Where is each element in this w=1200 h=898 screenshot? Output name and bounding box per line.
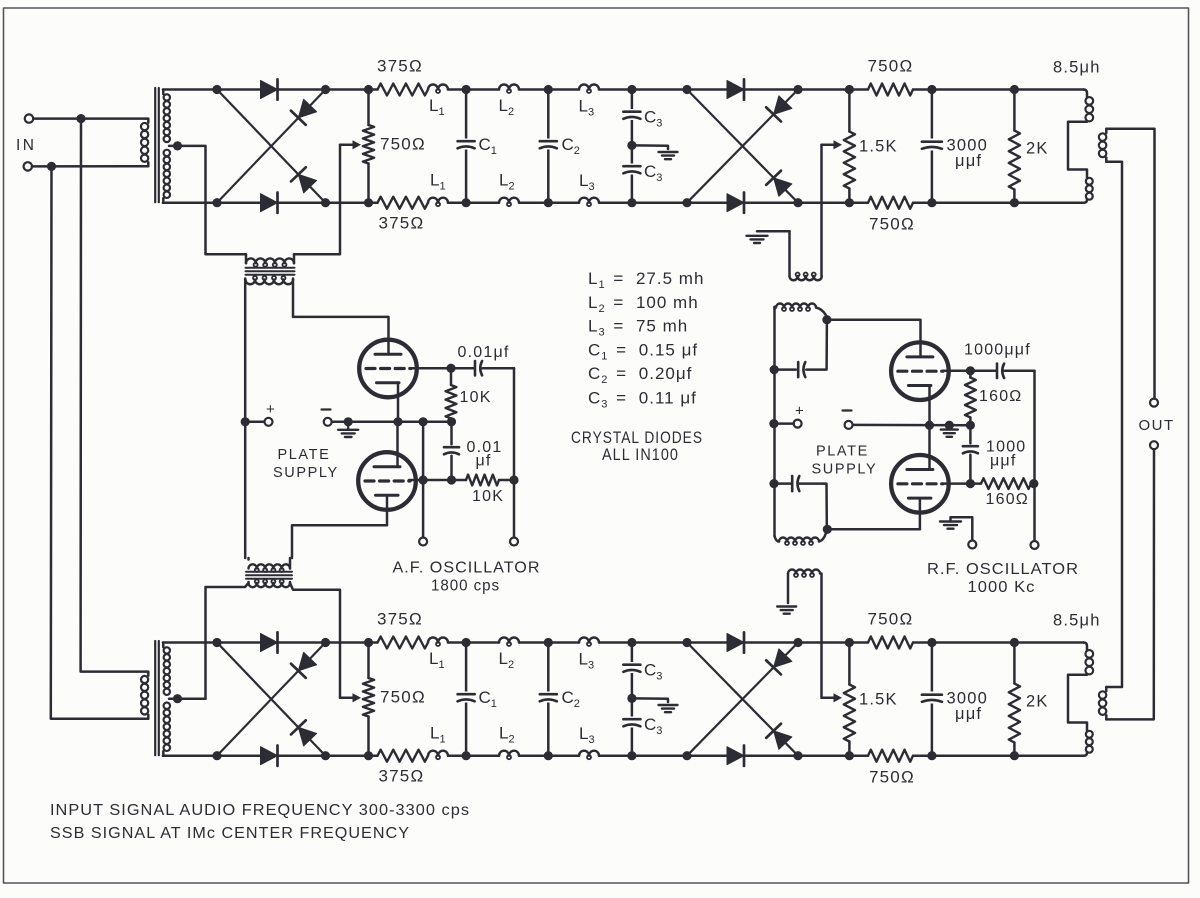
label L1 top A <box>429 96 445 118</box>
label L2 top B <box>499 649 515 671</box>
inductor L2 bottom B <box>499 751 519 760</box>
junction C3 bottom B <box>627 751 636 760</box>
svg-text:IN: IN <box>16 137 37 154</box>
label 375 top B <box>377 610 423 629</box>
wire pot2A top lead <box>848 90 851 132</box>
ground AF rail <box>338 422 358 437</box>
label 1.5K B <box>859 691 898 709</box>
wire top bus left B <box>163 641 378 644</box>
diode D2A <box>261 193 278 213</box>
label RF OSCILLATOR <box>927 561 1079 578</box>
wire pot1A top lead <box>367 90 370 126</box>
capacitor 1000uuf coupling <box>963 425 978 483</box>
wire C2 branch A <box>547 90 550 203</box>
wire feedback cap A to rail <box>774 368 796 371</box>
label 10K V1 <box>460 389 492 406</box>
capacitor C3 lower B <box>623 717 640 728</box>
junction rail RF plus <box>769 419 778 428</box>
junction right rail AF <box>509 475 518 484</box>
wire RF bottom rail <box>827 528 920 531</box>
resistor 10K grid V1 <box>446 368 457 422</box>
terminal IN upper <box>25 114 33 122</box>
wire V2 plate lead <box>396 422 399 465</box>
svg-text:2K: 2K <box>1026 140 1049 158</box>
wire A 750-out top <box>913 88 1084 91</box>
junction V1 grid node <box>446 364 455 373</box>
transformer T2A primary winding <box>246 254 294 266</box>
resistor 160ohm V4 <box>970 478 1031 489</box>
transformer T2B core <box>246 572 292 579</box>
junction 2K top B <box>1010 638 1019 647</box>
wire pot1B bottom lead <box>367 717 370 756</box>
svg-text:1.5K: 1.5K <box>859 691 898 709</box>
label 1800 cps <box>431 578 500 595</box>
transformer T4 tank winding B <box>775 534 826 546</box>
wire V1 cathode lead <box>397 383 400 422</box>
svg-text:8.5μh: 8.5μh <box>1053 59 1101 77</box>
terminal AF output left <box>419 538 427 546</box>
svg-text:L3 = 75 mh: L3 = 75 mh <box>588 317 688 339</box>
svg-text:A.F. OSCILLATOR: A.F. OSCILLATOR <box>393 560 541 577</box>
label C1 B <box>479 688 497 710</box>
svg-text:750Ω: 750Ω <box>869 768 915 787</box>
wire pot1B top lead <box>367 643 370 679</box>
label C3 upper B <box>644 661 662 683</box>
transformer T3B secondary winding <box>1099 687 1106 719</box>
label 0.01 V2 <box>467 439 503 456</box>
terminal plus AF <box>265 418 273 426</box>
capacitor C2 A <box>540 139 557 150</box>
diode D7A <box>766 96 792 122</box>
junction 2K bottom B <box>1010 751 1019 760</box>
junction 3000uuf bottom B <box>927 751 936 760</box>
wire A L2-L3 bottom <box>519 201 579 204</box>
junction C1 bottom B <box>462 751 471 760</box>
capacitor C2 B <box>540 692 557 703</box>
wire rail to V2 grid <box>422 422 425 480</box>
junction C3 top A <box>627 85 636 94</box>
wire B 750-out bottom <box>913 754 1084 757</box>
svg-text:0.01μf: 0.01μf <box>458 344 510 361</box>
junction rail ground A <box>344 417 353 426</box>
label L3 bottom A <box>579 171 595 193</box>
wire center-tap A to T2A <box>178 146 247 254</box>
label 3000uuf A <box>947 137 989 171</box>
capacitor C3 lower A <box>623 164 640 175</box>
junction pot1B top <box>364 638 373 647</box>
wire diagonal ring1B <box>217 643 326 756</box>
svg-text:L2 = 100 mh: L2 = 100 mh <box>588 293 699 315</box>
svg-text:2K: 2K <box>1026 693 1049 711</box>
resistor 750ohm output top B <box>868 637 913 649</box>
label uf V2 <box>476 453 492 470</box>
tube V3 <box>891 342 949 400</box>
wire B L3-ring top <box>599 641 687 644</box>
junction C2 bottom A <box>544 198 553 207</box>
label 375 bottom A <box>379 214 425 233</box>
wire T2A secondary right to V1 plate <box>293 280 389 355</box>
table component values <box>588 269 704 411</box>
label C3 upper A <box>644 108 662 130</box>
terminal plus RF <box>794 420 802 428</box>
label 750 output bottom B <box>869 768 915 787</box>
transformer T2A secondary winding <box>245 276 293 284</box>
svg-text:L3: L3 <box>579 650 595 672</box>
label 8.5uh B <box>1053 612 1101 630</box>
svg-text:1.5K: 1.5K <box>859 138 898 156</box>
label 2K A <box>1026 140 1049 158</box>
svg-text:C1: C1 <box>479 688 497 710</box>
svg-text:μμf: μμf <box>955 705 982 723</box>
label OUT <box>1139 417 1175 434</box>
svg-text:375Ω: 375Ω <box>377 610 423 629</box>
transformer T1A secondary winding <box>163 90 170 203</box>
transformer T3B output primary 8.5uh <box>1068 643 1093 756</box>
wire T2B secondary left to center-tap B <box>181 583 249 699</box>
label 750 pot B <box>380 688 426 707</box>
svg-text:C2: C2 <box>562 688 580 710</box>
potentiometer 1.5K B <box>844 685 855 742</box>
ground L4 top <box>747 236 768 243</box>
wire A L1-L2 top <box>448 88 499 91</box>
wire T3A secondary to T3B secondary <box>1106 162 1122 687</box>
capacitor 3000uuf B <box>922 692 942 704</box>
svg-text:750Ω: 750Ω <box>869 215 915 234</box>
svg-text:SSB SIGNAL AT IMc CENTER FREQU: SSB SIGNAL AT IMc CENTER FREQUENCY <box>50 825 410 842</box>
label 1.5K A <box>859 138 898 156</box>
svg-text:1800 cps: 1800 cps <box>431 578 500 595</box>
wire B 750-out top <box>913 641 1084 644</box>
svg-text:10K: 10K <box>472 488 504 505</box>
resistor 160ohm V3 <box>965 371 976 425</box>
wire V3 grid lead <box>943 370 970 373</box>
junction pot2B top <box>845 638 854 647</box>
junction ring1A node <box>321 85 330 94</box>
resistor 2K B <box>1009 684 1020 743</box>
capacitor 1000uuf grid V3 <box>970 364 1034 378</box>
svg-text:μμf: μμf <box>955 152 982 170</box>
svg-text:L1: L1 <box>430 171 446 193</box>
svg-text:10K: 10K <box>460 389 492 406</box>
junction pot1A bottom <box>364 198 373 207</box>
junction rail RF 2 <box>769 479 778 488</box>
transformer T1B secondary winding <box>163 643 170 756</box>
junction C3 mid B <box>627 694 636 703</box>
junction C1 top A <box>462 85 471 94</box>
inductor L2 bottom A <box>499 198 519 206</box>
svg-text:160Ω: 160Ω <box>979 388 1022 405</box>
label 0.01uf V1 <box>458 344 510 361</box>
label 750 pot A <box>380 135 426 154</box>
wire V2 cathode to T2B <box>292 496 387 559</box>
svg-text:L1 = 27.5 mh: L1 = 27.5 mh <box>588 269 704 291</box>
junction T4B node <box>823 525 832 534</box>
tube V4 <box>891 455 949 513</box>
center tap stub T1A <box>169 145 178 148</box>
svg-text:R.F. OSCILLATOR: R.F. OSCILLATOR <box>927 561 1079 578</box>
label 8.5uh A <box>1053 59 1101 77</box>
wire feedback cap B corner <box>823 484 827 525</box>
center tap stub T1B <box>169 697 178 700</box>
inductor L2 top A <box>499 85 519 94</box>
resistor 750ohm output bottom B <box>868 750 913 762</box>
wire B right-ring to 750 top <box>798 641 868 644</box>
wire feedback cap A branch <box>806 320 827 370</box>
potentiometer 750ohm B <box>363 678 374 717</box>
svg-text:μμf: μμf <box>990 453 1016 470</box>
diode D1A <box>261 79 278 99</box>
junction C3 bottom A <box>627 198 636 207</box>
svg-text:L3: L3 <box>579 97 595 119</box>
terminal RF output right <box>1031 541 1039 549</box>
transformer T3A output primary 8.5uh <box>1068 90 1093 203</box>
wire IN lower to T1B <box>51 166 146 718</box>
wire V3 plate <box>827 320 921 357</box>
wire A L1-L2 bottom <box>448 201 499 204</box>
label 750 output top A <box>868 57 914 76</box>
junction ring2A node <box>682 198 691 207</box>
tube V1 <box>359 340 417 398</box>
label 1000 coupling <box>986 439 1026 456</box>
label IN <box>16 137 37 154</box>
junction pot1B bottom <box>364 751 373 760</box>
label 160ohm V3 <box>979 388 1022 405</box>
wire A right-ring to 750 bottom <box>798 201 868 204</box>
diode D5A <box>727 79 744 99</box>
label PLATE SUPPLY RF <box>812 444 878 478</box>
svg-text:375Ω: 375Ω <box>377 57 423 76</box>
junction 3000uuf top A <box>927 85 936 94</box>
svg-text:L2: L2 <box>499 96 515 118</box>
label C2 B <box>562 688 580 710</box>
transformer T4 tank winding A <box>775 304 827 318</box>
label 1000uuf V3 <box>964 342 1031 359</box>
svg-text:750Ω: 750Ω <box>380 135 426 154</box>
label L2 bottom B <box>499 724 515 746</box>
svg-text:C2: C2 <box>562 135 580 157</box>
wire IN upper to T1A <box>33 117 146 120</box>
diode D5B <box>727 632 744 652</box>
svg-text:1000μμf: 1000μμf <box>964 342 1031 359</box>
wire A L3-ring bottom <box>599 201 687 204</box>
svg-text:1000 Kc: 1000 Kc <box>968 579 1036 596</box>
transformer T2B primary winding <box>245 554 290 573</box>
junction rail A left <box>241 417 250 426</box>
inductor L1 bottom B <box>428 751 448 760</box>
wire top bus left A <box>163 88 378 91</box>
label 750 output bottom A <box>869 215 915 234</box>
label C1 A <box>479 135 497 157</box>
terminal minus AF <box>324 418 332 426</box>
diode D8B <box>766 724 792 750</box>
wire plus RF <box>778 422 794 425</box>
wire C3 branch B <box>631 643 634 756</box>
junction ring2A node <box>793 198 802 207</box>
svg-text:SUPPLY: SUPPLY <box>812 462 878 478</box>
label C2 A <box>562 135 580 157</box>
junction rail RF ground <box>945 421 954 430</box>
svg-text:L2: L2 <box>499 171 515 193</box>
label 375 bottom B <box>379 767 425 786</box>
wire A L3-ring top <box>599 88 687 91</box>
wire V2 grid to terminal <box>422 480 425 538</box>
diode D4B <box>291 720 317 746</box>
wire pot1A bottom lead <box>367 164 370 203</box>
junction IN upper branch <box>76 114 85 123</box>
inductor L2 top B <box>499 638 519 647</box>
junction V4 grid node <box>966 479 975 488</box>
wire C3 ground stub B <box>632 698 668 702</box>
svg-text:L1: L1 <box>430 724 446 746</box>
label L1 bottom A <box>430 171 446 193</box>
svg-text:PLATE: PLATE <box>816 444 869 460</box>
junction pot2A bottom <box>845 198 854 207</box>
wire C3 branch A <box>631 90 634 203</box>
diode D2B <box>261 746 278 766</box>
svg-text:L2: L2 <box>499 649 515 671</box>
junction V3 grid node <box>966 366 975 375</box>
junction ring2B node <box>682 638 691 647</box>
wire 3000uuf branch B <box>931 643 934 756</box>
resistor 375ohm top A <box>378 84 429 96</box>
label C3 lower B <box>644 715 662 737</box>
resistor 10K grid V2 <box>466 475 499 486</box>
junction T4A plate node <box>822 315 831 324</box>
junction ring1B node <box>212 638 221 647</box>
wire B L3-ring bottom <box>599 754 687 757</box>
svg-text:+: + <box>795 403 804 420</box>
junction V2 grid left <box>419 475 428 484</box>
capacitor feedback B <box>774 476 823 491</box>
resistor 750ohm output top A <box>868 84 913 96</box>
wire T2A secondary left to plate-supply rail <box>244 280 247 554</box>
junction C3 mid A <box>627 141 636 150</box>
label 160ohm V4 <box>986 491 1029 508</box>
svg-text:SUPPLY: SUPPLY <box>273 465 339 481</box>
svg-text:L1: L1 <box>429 649 445 671</box>
wire V4 cathode lead <box>919 499 922 530</box>
junction right rail RF <box>1029 479 1038 488</box>
potentiometer 750ohm A <box>363 125 374 164</box>
svg-text:375Ω: 375Ω <box>379 214 425 233</box>
wire right rail AF <box>485 368 515 537</box>
junction IN lower branch <box>47 162 56 171</box>
junction ring1A node <box>321 198 330 207</box>
svg-text:C3: C3 <box>644 661 662 683</box>
transformer T2A core <box>246 268 295 275</box>
svg-text:μf: μf <box>476 453 492 470</box>
svg-text:375Ω: 375Ω <box>379 767 425 786</box>
junction ring1B node <box>321 638 330 647</box>
junction 3000uuf bottom A <box>927 198 936 207</box>
terminal AF output right <box>510 538 518 546</box>
label L1 top B <box>429 649 445 671</box>
wire V2 grid lead <box>409 479 466 482</box>
junction ring2A node <box>793 85 802 94</box>
terminal IN lower <box>24 162 32 170</box>
junction rail 160 RF <box>966 421 975 430</box>
tube V2 <box>358 452 416 510</box>
label C3 lower A <box>644 162 662 184</box>
junction ring1A node <box>212 85 221 94</box>
diode D6A <box>727 193 744 213</box>
transformer T1A input primary winding <box>141 119 148 167</box>
junction 2K bottom A <box>1010 198 1019 207</box>
wire C2 branch B <box>547 643 550 756</box>
resistor 2K A <box>1009 131 1020 190</box>
wire V1 grid lead <box>411 367 451 370</box>
transformer T1A core <box>155 88 159 202</box>
wire 10K V2 to rail <box>499 479 514 482</box>
capacitor C1 A <box>458 139 475 150</box>
junction ring1A node <box>212 198 221 207</box>
wire 3000uuf branch A <box>931 90 934 203</box>
svg-text:ALL IN100: ALL IN100 <box>602 446 679 464</box>
junction ring2B node <box>682 751 691 760</box>
resistor 375ohm bottom A <box>378 197 429 209</box>
terminal OUT lower <box>1150 441 1158 449</box>
wire A L2-L3 top <box>519 88 579 91</box>
label 2K B <box>1026 693 1049 711</box>
coupling coil L4 top <box>757 231 822 280</box>
junction ring2B node <box>793 638 802 647</box>
label L2 bottom A <box>499 171 515 193</box>
wire C1 branch A <box>465 90 468 203</box>
svg-text:160Ω: 160Ω <box>986 491 1029 508</box>
wiper arrow pot1B <box>340 693 361 702</box>
wire T2B secondary right to wiper B <box>290 583 340 698</box>
junction rail V1 cathode <box>393 417 402 426</box>
svg-text:PLATE: PLATE <box>278 447 331 463</box>
junction ring1B node <box>321 751 330 760</box>
diode D3B <box>291 652 317 678</box>
note crystal diodes <box>571 429 703 447</box>
ground L4 bottom <box>777 607 796 614</box>
potentiometer 1.5K A <box>844 132 855 189</box>
resistor 375ohm bottom B <box>378 750 429 762</box>
svg-text:L3: L3 <box>579 171 595 193</box>
junction pot2A top <box>845 85 854 94</box>
label L3 top B <box>579 650 595 672</box>
junction center tap T1A <box>173 141 182 150</box>
svg-text:750Ω: 750Ω <box>868 57 914 76</box>
diode D7B <box>766 649 792 675</box>
label L3 bottom B <box>579 724 595 746</box>
wire B L2-L3 bottom <box>519 754 579 757</box>
junction C2 top A <box>544 85 553 94</box>
svg-text:L2: L2 <box>499 724 515 746</box>
label L2 top A <box>499 96 515 118</box>
wire IN upper to T1B <box>81 119 146 672</box>
wire A right-ring to 750 top <box>798 88 868 91</box>
junction C1 bottom A <box>462 198 471 207</box>
terminal OUT upper <box>1150 399 1158 407</box>
inductor L1 bottom A <box>428 198 448 206</box>
label 750 output top B <box>868 610 914 629</box>
wire V4 plate lead <box>928 425 931 469</box>
wire wiper A to T2A <box>294 145 340 255</box>
wire 2K branch A <box>1013 90 1016 203</box>
junction ring2A node <box>682 85 691 94</box>
wire C3 ground stub A <box>632 145 668 149</box>
label plus AF <box>266 401 275 418</box>
svg-text:CRYSTAL DIODES: CRYSTAL DIODES <box>571 429 703 447</box>
label PLATE SUPPLY AF <box>273 447 339 481</box>
wire right rail RF <box>1033 371 1036 541</box>
capacitor C3 upper A <box>623 109 640 120</box>
label 10K V2 <box>472 488 504 505</box>
svg-text:C2 = 0.20μf: C2 = 0.20μf <box>588 364 692 386</box>
